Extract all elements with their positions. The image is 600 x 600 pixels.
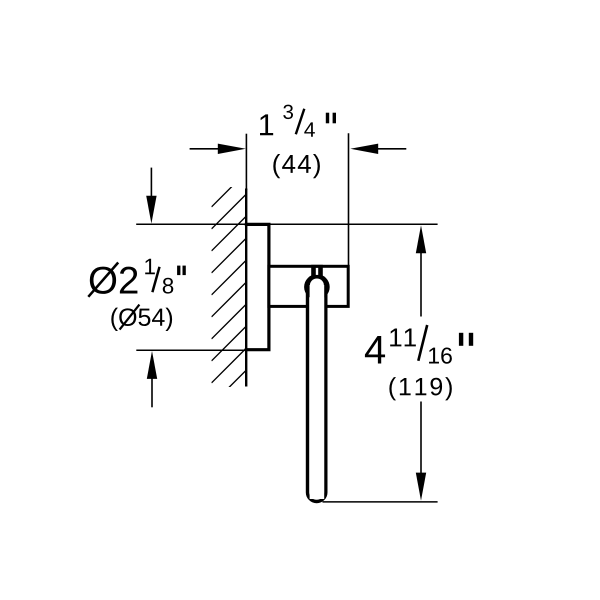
- extension line right (body face): [348, 133, 350, 266]
- label 4 11/16 inch mark: [459, 333, 463, 346]
- label (119): [389, 377, 451, 400]
- label 1 3/4 fraction slash: [296, 109, 305, 135]
- pivot pin: [311, 265, 323, 279]
- height dim line lower: [420, 402, 422, 474]
- height dim arrow top: [416, 225, 426, 253]
- label 1 3/4 inch mark: [326, 113, 329, 124]
- label dia numerator: [145, 259, 155, 274]
- dia dim bottom arrow tail: [151, 379, 153, 408]
- label 4 11/16 denominator: [429, 347, 452, 363]
- label 1 3/4 denominator: [304, 122, 315, 136]
- paper holder ring (capsule side view): [308, 276, 326, 501]
- wall line: [245, 189, 247, 387]
- label (44): [273, 154, 320, 178]
- top dim arrow right: [350, 144, 378, 154]
- label 4 11/16 fraction slash: [418, 325, 427, 361]
- label (dia 54): [111, 308, 172, 331]
- ring channel white: [310, 285, 325, 499]
- top dim tail left: [190, 148, 220, 150]
- label dia inch mark: [177, 266, 180, 276]
- wall hatching: [212, 172, 247, 405]
- height dim line upper: [420, 252, 422, 317]
- dia dim bottom line: [136, 349, 250, 351]
- label 4 11/16 numerator: [390, 329, 416, 347]
- label dia fraction slash: [152, 267, 159, 292]
- label dia denominator: [163, 278, 174, 294]
- extension line left (wall face): [245, 134, 247, 190]
- height dim arrow bottom: [416, 473, 426, 501]
- dia dim top arrow tail: [150, 168, 152, 197]
- label 1 3/4 inch main: [260, 114, 273, 135]
- dia dim top arrow: [146, 196, 156, 224]
- holder body: [269, 266, 348, 306]
- ball knob: [304, 274, 330, 300]
- pivot pin slot: [316, 268, 318, 275]
- label dia 2 1/8 main: [90, 267, 138, 294]
- dia dim top line: [136, 223, 437, 225]
- flange (escutcheon side view): [245, 224, 269, 349]
- label 1 3/4 numerator: [283, 105, 293, 120]
- dia slash through O: [88, 263, 118, 297]
- height dim bottom ext line: [323, 501, 438, 503]
- top dim tail right: [378, 148, 406, 150]
- dia dim bottom arrow: [147, 351, 157, 379]
- top dim arrow left: [218, 144, 246, 154]
- knob white center: [310, 279, 324, 293]
- label 4 11/16 main: [365, 336, 385, 364]
- small dia slash: [120, 305, 140, 330]
